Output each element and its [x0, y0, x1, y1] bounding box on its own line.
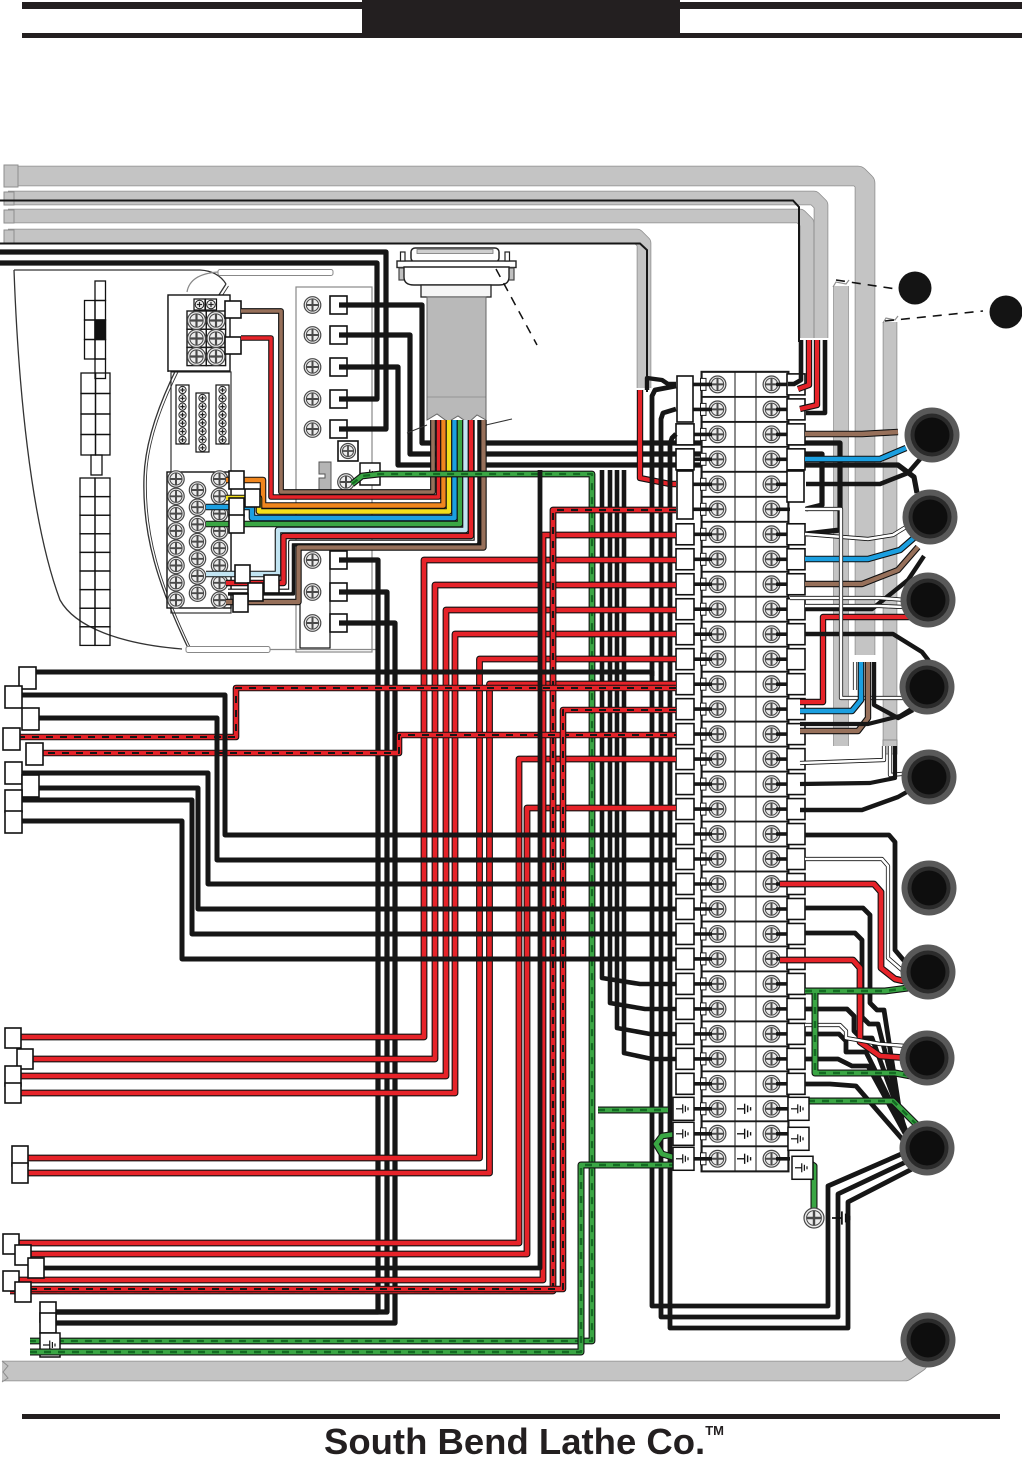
TS row 29 left lug: [676, 1073, 694, 1094]
TB2 col1 screw 8: [168, 592, 184, 608]
connector J1 screw right: [503, 268, 514, 280]
TS row 26 right lug: [787, 998, 805, 1019]
TS row 30 ground symbol: [737, 1104, 751, 1114]
wire green 1 (TB2 to J1): [206, 420, 460, 524]
connector J3: [903, 490, 958, 545]
TS row 1 right lug: [787, 374, 805, 395]
TB2 col2 screw 2: [189, 499, 205, 515]
TS row 22 left lug: [676, 898, 694, 919]
TB1 mini cell 2: [206, 299, 217, 310]
mini strip 2 screw 6: [199, 436, 206, 443]
terminal strip row 31 left screw: [709, 1125, 726, 1142]
connector J2: [905, 408, 960, 463]
connector J11: [901, 1313, 956, 1368]
terminal strip row 22 left screw: [709, 901, 726, 918]
panel outline bottom edge line: [270, 649, 378, 651]
connector lug box B8: [15, 1245, 31, 1265]
wire white to J4 lower: [805, 606, 904, 607]
ground lug row31 right: [788, 1127, 809, 1150]
terminal strip row 24 left screw: [709, 951, 726, 968]
wire black row5 to J2: [806, 458, 921, 484]
TB2 col1 screw 4: [168, 523, 184, 539]
TB2 col3 screw 3: [211, 505, 227, 521]
wire red cable G2a to row2 right: [800, 340, 817, 409]
cable stub G6 top tick: [883, 316, 898, 323]
panel outline top edge: [14, 270, 226, 284]
mini strip 1 screw 7: [179, 436, 186, 443]
TB1 screw 4: [207, 330, 225, 348]
wire blue row13 from cable G1: [800, 662, 861, 711]
connector J1 pin left: [401, 252, 406, 261]
wire white cable G1 down: [853, 662, 857, 690]
mid strip lower screw 3: [304, 615, 321, 632]
TB2 col1 screw 6: [168, 557, 184, 573]
terminal strip row 21 left screw: [709, 876, 726, 893]
terminal area border top block: [167, 296, 169, 372]
connector J6: [902, 750, 957, 805]
wire green ground (mid panel across): [30, 474, 592, 1341]
wire black row11 to J5 top: [805, 634, 929, 661]
terminal strip row 16 right screw: [763, 751, 780, 768]
terminal strip row 11 right screw: [763, 626, 780, 643]
mid strip screw 4: [304, 391, 321, 408]
wire black cable G6 to row17: [800, 746, 895, 784]
mini strip 1 screw 1: [179, 386, 186, 393]
wire green row32 right to ground screw: [805, 1160, 814, 1208]
connector J10: [900, 1121, 955, 1176]
wire green row24 to J7: [805, 988, 908, 991]
TS row 4 left lug: [676, 449, 694, 470]
TS row 21 left lug: [676, 874, 694, 895]
mini strip 3 screw 5: [219, 420, 226, 427]
TB2 col3 screw 5: [211, 540, 227, 556]
terminal strip row 13 right screw: [763, 676, 780, 693]
wire black row18 to J7: [805, 835, 906, 963]
cable stub G6: [883, 322, 898, 744]
terminal strip row 4 left screw: [709, 451, 726, 468]
wire black bundle 2: [610, 470, 676, 1009]
cable G2 harness: [8, 198, 821, 338]
wire yellow (TB2 to J1): [226, 420, 449, 512]
mid strip lower lug box 3: [330, 614, 347, 632]
TS row 20 left lug: [676, 849, 694, 870]
wire black stair 4: [26, 788, 676, 909]
TB2 lug box blue: [229, 498, 244, 516]
ground lug box mid symbol: [363, 470, 375, 479]
TS row 24 left lug: [676, 948, 694, 969]
connector J7: [902, 861, 957, 916]
wire black right 2 to J10: [805, 933, 904, 1127]
terminal strip row 13 left screw: [709, 676, 726, 693]
TB2 lug box yellow: [245, 489, 260, 507]
wire red row23 to J8: [780, 960, 908, 1058]
wire black right 1 to J10: [805, 908, 901, 1120]
terminal strip row 5 left screw: [709, 476, 726, 493]
TS row 7 right lug: [787, 524, 805, 545]
TB2 col2 screw 4: [189, 533, 205, 549]
mid strip lug box 4: [330, 390, 347, 408]
mini strip 2 screw 1: [199, 394, 206, 401]
wire TS row2 left black loop: [661, 409, 910, 1317]
mid strip lug box 2: [330, 326, 347, 344]
TS row 23 right lug: [787, 923, 805, 944]
connector lug box B2: [17, 1049, 33, 1069]
terminal strip body: [702, 372, 788, 1171]
TB2 col1 screw 5: [168, 540, 184, 556]
TS row 11 left lug: [676, 624, 694, 645]
wire red R3: [10, 610, 676, 1076]
TB2 col3 screw 1: [211, 471, 227, 487]
panel outline left edge: [14, 270, 182, 649]
wire mid lower 3: [48, 623, 395, 1323]
terminal strip edge notches: [701, 378, 707, 1164]
TB1 wire lug box 2: [225, 337, 241, 354]
terminal area border main: [171, 372, 231, 613]
terminal strip row 26 right screw: [763, 1001, 780, 1018]
wire black row17 to J6: [800, 789, 912, 810]
leader dashed line to connector P1: [836, 280, 896, 289]
terminal strip row 31 right screw: [763, 1125, 780, 1142]
terminal strip row 28 right screw: [763, 1050, 780, 1067]
TS row 14 left lug: [676, 699, 694, 720]
TS row 8 right lug: [787, 549, 805, 570]
TS row 12 right lug: [787, 649, 805, 670]
TB2 col2 screw 7: [189, 585, 205, 601]
TB1 mini screw 2: [207, 300, 216, 309]
mini strip 3 body: [216, 385, 229, 444]
terminal strip row 22 right screw: [763, 901, 780, 918]
TS row 23 left lug: [676, 923, 694, 944]
ground lug row31 left: [673, 1122, 694, 1145]
terminal strip row 24 right screw: [763, 951, 780, 968]
terminal strip row 17 right screw: [763, 776, 780, 793]
svg-text:South Bend Lathe Co.TM: South Bend Lathe Co.TM: [324, 1421, 724, 1458]
wire black cable G1 to J5: [874, 662, 913, 718]
TS row 25 left lug: [676, 973, 694, 994]
mid strip bracket: [319, 462, 331, 491]
ground lug row30 left: [673, 1097, 694, 1120]
cable G3 end cap left: [4, 210, 14, 223]
TS row 16 right lug: [787, 749, 805, 770]
mid strip lower body: [300, 548, 330, 648]
cable G7 left jagged end: [2, 1361, 8, 1382]
TS row 8 left lug: [676, 549, 694, 570]
connector J1 shell top band: [417, 250, 493, 254]
TB2 col3 screw 8: [211, 592, 227, 608]
TS row 29 right lug: [787, 1073, 805, 1094]
connector J1 body: [404, 267, 509, 285]
wire TS row1 left black loop: [652, 386, 906, 1306]
terminal block TB1 outline: [168, 295, 230, 371]
connector lug box B9: [28, 1258, 44, 1278]
TS row 17 left lug: [676, 774, 694, 795]
cable G7 bottom harness: [2, 1352, 922, 1371]
header top rule: [22, 2, 1022, 9]
TS row 13 right lug: [787, 674, 805, 695]
mini strip 2 screw 4: [199, 419, 206, 426]
terminal strip row 16 left screw: [709, 751, 726, 768]
connector lug box B5: [12, 1146, 28, 1166]
TS row 3 left lug: [676, 424, 694, 445]
connector J9: [900, 1031, 955, 1086]
TS row 16 left lug: [676, 749, 694, 770]
terminal strip row 25 right screw: [763, 976, 780, 993]
connector lug box L2: [5, 686, 22, 708]
mini strip 2 screw 5: [199, 428, 206, 435]
TB2 col1 screw 2: [168, 488, 184, 504]
wire red dashed E2: [34, 735, 676, 753]
cable stub G5 top tick: [833, 280, 849, 287]
wire red R10: [10, 510, 676, 1291]
TS row 14 right lug: [787, 699, 805, 720]
terminal strip row 10 right screw: [763, 601, 780, 618]
terminal stub wires: [692, 384, 790, 1158]
TS row 15 right lug: [787, 724, 805, 745]
terminal strip row 21 right screw: [763, 876, 780, 893]
wire mid screw 1 to TS row6 right: [339, 305, 840, 534]
mid strip lug box 1: [330, 296, 347, 314]
connector lug box B10: [3, 1271, 19, 1291]
cable G2 end cap left: [4, 192, 14, 205]
mini strip 3 screw 1: [219, 386, 226, 393]
TB2 col1 screw 3: [168, 505, 184, 521]
wire red dashed row13 left: [31, 710, 676, 1289]
wire red cable G3b to row1 right: [798, 340, 809, 389]
ground lug row30 left symbol: [676, 1104, 688, 1113]
TS row 3 right lug: [787, 424, 805, 445]
ground lug row31 right symbol: [791, 1134, 803, 1143]
mid strip screw G1: [338, 474, 355, 491]
wire mid screw 3 to connector J3: [339, 367, 917, 493]
terminal strip row 32 left screw: [709, 1150, 726, 1167]
wire red R1: [14, 560, 676, 1037]
connector lug box L7: [22, 775, 39, 797]
mid strip screw 5: [304, 421, 321, 438]
wire black bundle 4: [624, 470, 676, 1059]
wire white row7 to J3: [805, 527, 906, 539]
TS row 21 right lug: [787, 874, 805, 895]
TS row 28 left lug: [676, 1048, 694, 1069]
wire brown 1 (TB1 to J1): [241, 311, 433, 492]
mini strip 1 screw 5: [179, 420, 186, 427]
TB2 col1 screw 7: [168, 575, 184, 591]
terminal strip row 4 right screw: [763, 451, 780, 468]
wire red R8: [24, 808, 676, 1254]
TB1 mini screw 1: [195, 300, 204, 309]
wire red R9: [10, 535, 676, 1280]
TS rows 1-2 left tall lug: [677, 376, 693, 422]
TS row 10 left lug: [676, 599, 694, 620]
mini strip 3 screw 7: [219, 436, 226, 443]
TS row 9 left lug: [676, 574, 694, 595]
wire blue row4 to J2: [805, 448, 906, 459]
mini strip 1 screw 3: [179, 403, 186, 410]
TB1 screw 2: [207, 312, 225, 330]
terminal strip row 2 right screw: [763, 401, 780, 418]
leader dashed line to connector P2: [885, 311, 983, 321]
wire black stair 6: [10, 821, 676, 959]
ground symbol isolated: [832, 1211, 850, 1224]
mid strip lower lug box 2: [330, 583, 347, 601]
terminal strip row 9 right screw: [763, 576, 780, 593]
ground lug row30 right symbol: [791, 1104, 803, 1113]
terminal strip row 18 left screw: [709, 801, 726, 818]
connector lug box L3: [22, 708, 39, 730]
wire black right 4 to J10: [805, 1034, 910, 1141]
panel outline bottom edge rail: [186, 647, 270, 653]
wire black long J-route: [33, 672, 652, 676]
mid panel border: [296, 287, 372, 652]
mini strip 3 screw 2: [219, 395, 226, 402]
ground lug row32 left: [673, 1147, 694, 1170]
wire black under cable G4: [0, 244, 647, 393]
wire black B2 to mid screw 4: [0, 263, 377, 399]
terminal strip row 5 right screw: [763, 476, 780, 493]
mid strip boxed screw: [341, 444, 356, 459]
TB1 screw 1: [188, 312, 206, 330]
cable G3 harness: [8, 216, 807, 338]
TB2 lug box green: [229, 515, 244, 533]
wire green row30 left: [598, 1107, 668, 1114]
mid strip lower screw 1: [304, 552, 321, 569]
connector lug box L1: [19, 667, 36, 689]
mini strip 3 screw 4: [219, 411, 226, 418]
wire white cable G6 to rows: [800, 746, 884, 763]
mini strip 1 screw 2: [179, 395, 186, 402]
mid strip lower screw 2: [304, 584, 321, 601]
wire white to J4 upper: [790, 598, 906, 600]
wire red row20 to J7: [780, 884, 908, 982]
TB2 col3 screw 6: [211, 557, 227, 573]
TS row 26 left lug: [676, 998, 694, 1019]
wire red R2: [26, 585, 676, 1059]
ground lug box bottom left: [40, 1333, 60, 1357]
mini strip 3 screw 3: [219, 403, 226, 410]
wire mid lower 1: [48, 560, 378, 1312]
footer rule: [22, 1414, 1000, 1419]
wire red dashed E1: [18, 688, 676, 737]
TS row 18 right lug: [787, 799, 805, 820]
wire black stair 1: [9, 695, 676, 835]
TS row 11 right lug: [787, 624, 805, 645]
terminal strip row 19 right screw: [763, 826, 780, 843]
mid strip lug box 5: [330, 420, 347, 438]
TS row 20 right lug: [787, 849, 805, 870]
mini strip 1 body: [176, 385, 189, 444]
connector lug box B11: [15, 1282, 31, 1302]
mid strip lower lug box 1: [330, 551, 347, 569]
TS row 13 left lug: [676, 674, 694, 695]
terminal strip row 12 right screw: [763, 651, 780, 668]
TB2 lug box red: [264, 575, 279, 593]
cable stub G5: [833, 286, 849, 746]
leader dashed from connector J1: [496, 269, 537, 345]
wire red cable G4a to row5 left: [640, 390, 676, 484]
terminal strip row 14 right screw: [763, 701, 780, 718]
wire light blue (TB2 to J1): [206, 420, 466, 574]
wire black cable G3a to row1 right: [788, 340, 801, 384]
connector J1 flange: [397, 261, 516, 268]
wire black stair 2: [26, 718, 676, 860]
terminal strip row 8 right screw: [763, 551, 780, 568]
ground lug box mid: [360, 463, 380, 485]
terminal strip row 23 right screw: [763, 926, 780, 943]
terminal strip row 7 right screw: [763, 526, 780, 543]
terminal strip row 15 right screw: [763, 726, 780, 743]
cable G4 end cap left: [4, 230, 14, 243]
TS row 2 right lug: [787, 399, 805, 420]
terminal strip row 12 left screw: [709, 651, 726, 668]
wire blue 1 (TB2 to J1): [206, 420, 455, 518]
connector lug box B4: [5, 1083, 21, 1103]
terminal strip row 17 left screw: [709, 776, 726, 793]
terminal strip row 29 right screw: [763, 1075, 780, 1092]
wire green row30 to J10: [808, 1101, 920, 1128]
TB2 lug box brown: [233, 594, 248, 612]
switch grid A: [85, 281, 106, 379]
mid strip screw 3: [304, 359, 321, 376]
mini strip 1 screw 4: [179, 411, 186, 418]
terminal strip row 25 left screw: [709, 976, 726, 993]
leader tick at cable fan left: [407, 425, 427, 433]
mini strip 2 body: [196, 393, 209, 452]
terminal strip row 14 left screw: [709, 701, 726, 718]
ground screw isolated: [804, 1208, 824, 1228]
terminal strip row 6 left screw: [709, 501, 726, 518]
terminal strip row 11 left screw: [709, 626, 726, 643]
TS row 4 right lug: [787, 449, 805, 470]
TS rows 5-6 left tall lug: [677, 471, 693, 519]
TB2 col2 screw 6: [189, 568, 205, 584]
terminal strip row 2 left screw: [709, 401, 726, 418]
TB1 wire lug box 1: [225, 301, 241, 318]
switch grid B: [81, 373, 110, 475]
connector lug box B7: [3, 1234, 19, 1254]
terminal strip row 27 right screw: [763, 1025, 780, 1042]
TB2 lug box black: [248, 583, 263, 601]
terminal strip row 30 left screw: [709, 1100, 726, 1117]
mid strip screw 1: [304, 297, 321, 314]
wire red R4: [14, 634, 676, 1093]
connector lug box B1: [5, 1028, 21, 1048]
TS row 15 left lug: [676, 724, 694, 745]
connector J1 shell top: [411, 248, 499, 262]
wire TS row3 left black loop: [670, 434, 914, 1328]
terminal strip row 28 left screw: [709, 1050, 726, 1067]
wire brown row3 to J2: [805, 432, 898, 434]
wire brown row9 to J3: [805, 547, 918, 584]
wire white row19 to J7: [805, 859, 903, 971]
wire red to J4: [800, 617, 910, 702]
TS row 10 right lug: [787, 599, 805, 620]
TS row 24 right lug: [787, 948, 805, 969]
terminal strip dividers: [735, 372, 756, 1171]
wire black cable G4b to row1 left: [647, 378, 676, 390]
connector J4: [901, 573, 956, 628]
cable G4 harness: [8, 236, 644, 388]
TS row 9 right lug: [787, 574, 805, 595]
wire black right 5 to J10: [805, 1059, 913, 1148]
mid strip screw 2: [304, 327, 321, 344]
connector J8: [901, 945, 956, 1000]
panel inner top rail: [187, 272, 218, 292]
wire orange (TB2 to J1): [226, 420, 444, 506]
TS row 19 right lug: [787, 824, 805, 845]
TS row 19 left lug: [676, 824, 694, 845]
wire black A (runs under cable G2): [0, 201, 799, 343]
connector lug box L6: [5, 762, 22, 784]
mid strip lug box 3: [330, 358, 347, 376]
